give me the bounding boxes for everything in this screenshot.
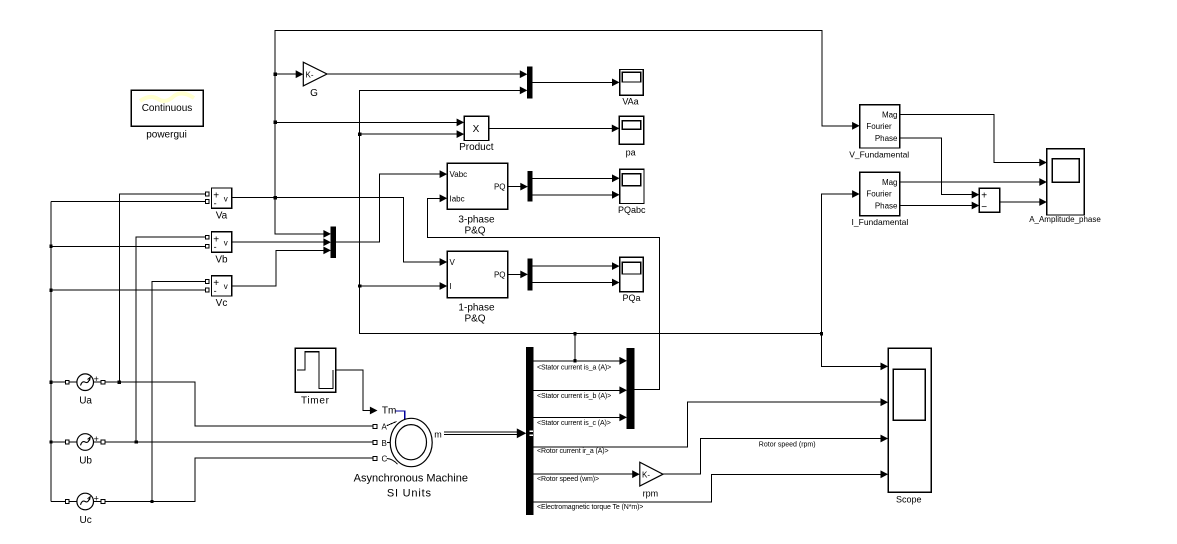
svg-text:PQ: PQ: [494, 271, 506, 280]
wire: Ua phase to machine A: [105, 381, 373, 427]
wire: Ua branch up to Va plus: [119, 194, 205, 382]
svg-text:−: −: [981, 202, 987, 213]
scope VAa: [620, 70, 644, 107]
svg-text:1-phase: 1-phase: [458, 303, 495, 314]
svg-text:VAa: VAa: [622, 97, 638, 107]
mux VAa (2 inputs): [527, 67, 532, 98]
svg-text:Phase: Phase: [875, 134, 898, 143]
svg-text:<Electromagnetic torque Te (N*: <Electromagnetic torque Te (N*m)>: [537, 504, 643, 511]
svg-text:<Stator current is_c (A)>: <Stator current is_c (A)>: [537, 420, 611, 427]
demux PQabc: [528, 171, 532, 201]
wire: demux out is_a to stator mux: [533, 357, 627, 372]
wire: 3-phase PQ output to demux: [508, 183, 528, 191]
mux Vabc (3 inputs): [331, 227, 336, 258]
svg-text:Vb: Vb: [215, 254, 228, 265]
wire: gain G input from node x275: [275, 70, 303, 78]
svg-text:Ub: Ub: [79, 455, 92, 466]
svg-text:Fourier: Fourier: [866, 190, 892, 199]
svg-text:PQa: PQa: [622, 293, 640, 303]
3-phase P&Q block: [447, 163, 508, 236]
gain G: [303, 62, 327, 99]
scope PQa: [620, 257, 644, 303]
wire: demux out P to PQabc: [532, 174, 620, 182]
svg-text:C: C: [382, 455, 388, 464]
voltage measurement Va: [205, 188, 232, 222]
wire: mux VAa output to scope VAa: [532, 79, 620, 87]
mux stator currents: [627, 349, 634, 429]
sum block: [979, 188, 999, 213]
svg-text:<Stator current is_a (A)>: <Stator current is_a (A)>: [537, 364, 611, 371]
svg-text:-: -: [214, 198, 217, 208]
svg-text:rpm: rpm: [643, 489, 659, 499]
fourier block V_Fundamental: [849, 105, 909, 160]
wire: sum output to A scope in3: [1000, 198, 1047, 206]
wire: demux out Te to Scope in4: [533, 470, 888, 510]
wire: Vc minus line: [51, 289, 205, 291]
svg-text:B: B: [382, 439, 387, 448]
svg-text:K-: K-: [306, 71, 314, 80]
wire: product input 2 (ia): [360, 130, 465, 138]
product X block: [459, 116, 494, 153]
svg-text:Uc: Uc: [79, 515, 91, 526]
svg-text:Ua: Ua: [79, 396, 92, 407]
wire: Vb output to mux in2: [232, 238, 331, 246]
svg-text:P&Q: P&Q: [464, 314, 485, 325]
svg-text:-: -: [214, 242, 217, 252]
svg-text:<Rotor speed (wm)>: <Rotor speed (wm)>: [537, 476, 599, 483]
svg-text:3-phase: 3-phase: [458, 215, 495, 226]
wire: product output to pa scope: [489, 125, 620, 133]
svg-text:Scope: Scope: [896, 495, 922, 505]
wire: Va minus line: [51, 201, 205, 203]
wire: rpm gain output to Scope in3: [663, 435, 888, 475]
svg-text:Rotor speed (rpm): Rotor speed (rpm): [759, 442, 816, 449]
svg-text:I: I: [450, 282, 452, 291]
wire: V_Fundamental Phase to sum plus: [900, 138, 980, 199]
svg-text:Timer: Timer: [301, 396, 330, 407]
svg-text:pa: pa: [626, 148, 636, 158]
wire: Uc phase to machine C: [105, 458, 373, 503]
wire: mux Vabc output to 3-phase Vabc input: [336, 170, 448, 242]
svg-text:Vc: Vc: [216, 298, 228, 309]
svg-text:Mag: Mag: [882, 110, 898, 119]
wire: Ub phase to machine B: [105, 440, 373, 443]
svg-text:v: v: [224, 238, 228, 247]
wire: gain G output to VAa mux in1: [327, 70, 527, 78]
wire: product input 1 (Va): [275, 119, 464, 127]
svg-text:G: G: [310, 88, 318, 99]
svg-text:<Rotor current ir_a (A)>: <Rotor current ir_a (A)>: [537, 448, 609, 455]
svg-text:P&Q: P&Q: [464, 226, 485, 237]
node: ia vertical x360 (stator current is_a): [358, 87, 823, 336]
svg-text:A: A: [382, 423, 388, 432]
svg-text:A_Amplitude_phase: A_Amplitude_phase: [1029, 215, 1101, 224]
svg-text:PQ: PQ: [494, 183, 506, 192]
wire: is_a drop to demux output line: [573, 334, 576, 363]
wire: neutral bus vertical: [49, 202, 52, 502]
node: Va branch vertical x275: [273, 30, 859, 237]
AC source Uc: [65, 493, 104, 526]
wire: Va output across to 1-phase V input: [232, 198, 447, 266]
powergui block: [131, 90, 203, 141]
svg-text:Mag: Mag: [882, 178, 898, 187]
svg-text:v: v: [224, 195, 228, 204]
wire: demux out is_c to stator mux: [533, 414, 627, 428]
demux machine signals: [526, 348, 533, 515]
wire: I_Fundamental Mag to A scope in2: [900, 178, 1047, 186]
svg-text:-: -: [214, 286, 217, 296]
wire: demux out P to PQa: [532, 262, 620, 270]
AC source Ub: [65, 434, 104, 467]
svg-text:+: +: [981, 191, 987, 202]
wire: V_Fundamental Mag to A scope in1: [900, 114, 1047, 166]
wire: Uc branch up to Vc plus: [152, 282, 205, 502]
wire: Timer output to Tm: [336, 370, 378, 414]
wire: neutral to Ua left port: [51, 381, 65, 383]
svg-text:Asynchronous Machine: Asynchronous Machine: [354, 473, 468, 485]
svg-text:powergui: powergui: [146, 130, 187, 141]
Timer block: [295, 348, 335, 406]
svg-text:v: v: [224, 282, 228, 291]
svg-text:<Stator current is_b (A)>: <Stator current is_b (A)>: [537, 393, 611, 400]
wire: demux out ir_a to Scope in2: [533, 398, 888, 455]
wire: neutral to Ub left port: [51, 441, 65, 443]
wire: 1-phase I input from ia node: [360, 282, 448, 290]
scope A_Amplitude_phase: [1029, 149, 1101, 224]
scope PQabc: [618, 169, 646, 215]
wire: I_Fundamental Phase to sum minus: [900, 202, 980, 210]
svg-text:Vabc: Vabc: [450, 170, 468, 179]
svg-text:SI Units: SI Units: [387, 488, 432, 500]
svg-text:m: m: [434, 430, 442, 440]
svg-text:V: V: [450, 258, 456, 267]
asynchronous machine: [354, 406, 468, 500]
voltage measurement Vc: [205, 276, 232, 310]
wire: Vb minus line: [51, 245, 205, 247]
svg-text:Fourier: Fourier: [866, 122, 892, 131]
wire: machine measurement bus (double line) to demux: [444, 428, 526, 438]
svg-text:Phase: Phase: [875, 202, 898, 211]
voltage measurement Vb: [205, 232, 232, 265]
svg-text:Continuous: Continuous: [142, 103, 193, 114]
1-phase P&Q block: [447, 251, 508, 324]
wire: demux out is_b to stator mux: [533, 386, 627, 400]
fourier block I_Fundamental: [852, 172, 909, 227]
wire: is_a up to I_Fundamental and Scope in1: [822, 190, 889, 370]
wire: Vc output to mux in3: [232, 247, 331, 286]
svg-text:K-: K-: [642, 471, 650, 480]
wire: Ub branch up to Vb plus: [136, 237, 205, 442]
gain rpm: [640, 462, 663, 498]
svg-text:Iabc: Iabc: [450, 194, 465, 203]
wire: 1-phase PQ output to demux: [508, 271, 528, 279]
demux PQa: [528, 259, 532, 290]
svg-text:V_Fundamental: V_Fundamental: [849, 149, 909, 159]
svg-text:Product: Product: [459, 142, 494, 153]
wire: neutral to Uc left port: [51, 501, 65, 503]
wire: demux out Q to PQa: [532, 279, 620, 287]
svg-text:PQabc: PQabc: [618, 205, 646, 215]
svg-text:I_Fundamental: I_Fundamental: [852, 217, 909, 227]
svg-text:Va: Va: [216, 211, 228, 222]
AC source Ua: [65, 374, 104, 407]
scope pa: [619, 116, 643, 157]
wire: stator-current mux output feed to Iabc input: [428, 194, 660, 389]
svg-text:Tm: Tm: [382, 406, 396, 417]
svg-text:X: X: [473, 124, 480, 135]
wire: demux out wm to rpm gain: [533, 470, 640, 483]
wire: demux out Q to PQabc: [532, 191, 620, 199]
scope Scope: [888, 348, 931, 504]
